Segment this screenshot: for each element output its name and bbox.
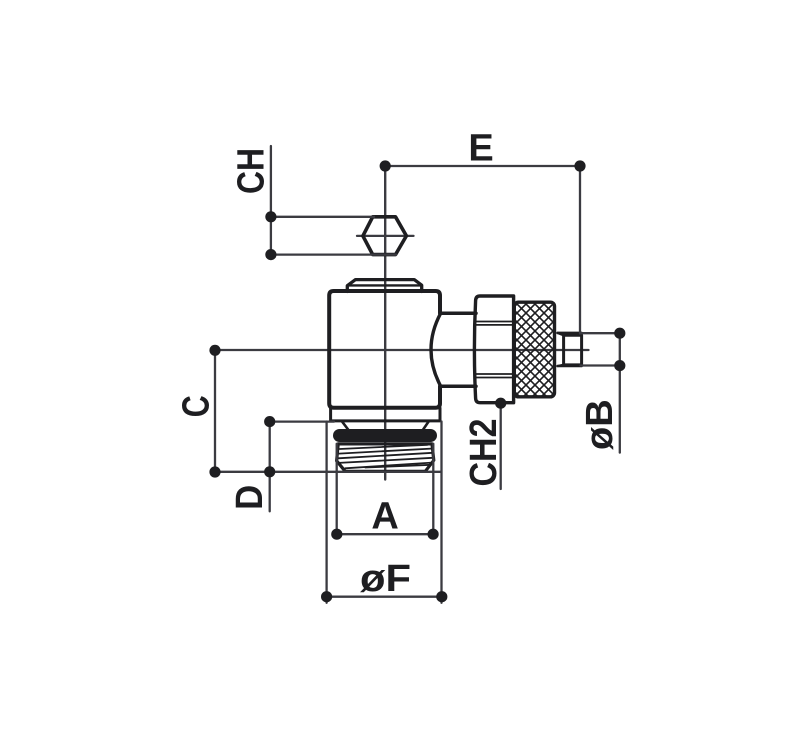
dimension øF left extension [325,422,327,603]
dot CH bottom [265,249,276,260]
dimension CH top line [271,216,374,218]
dimension A line [337,533,433,535]
tube stub bevel bottom [558,365,564,366]
svg-text:øF: øF [360,558,411,600]
threaded plug [337,444,434,471]
vertical centerline [384,166,386,480]
tube stub bevel top [558,333,564,335]
dimension øB bottom connector [581,364,619,366]
dot CH2 [495,398,506,409]
port neck top [440,311,476,315]
dot E left [380,160,391,171]
knurled ring [514,302,554,397]
body [329,291,440,408]
dot E right [574,160,585,171]
dimension øF right extension [440,422,442,603]
hex stud centerline [357,235,414,237]
tube stub outer top [558,332,582,335]
svg-text:D: D [229,485,271,510]
dot øF left [321,591,332,602]
dimension øB line [619,333,621,452]
dimension øB top connector [581,332,619,334]
top cap [347,280,421,292]
flange [331,408,440,421]
svg-text:øB: øB [579,399,621,450]
dot CH top [265,211,276,222]
hex stud head [363,217,407,255]
thread lines [338,445,433,469]
nut chamfer lines [475,322,513,378]
dot øF right [436,591,447,602]
dot C top [209,345,220,356]
dimension D line [269,422,271,512]
dimension CH2 extension line [500,403,502,489]
svg-text:CH2: CH2 [463,419,505,487]
tube stub box [564,335,582,365]
o-ring [333,429,437,442]
svg-text:C: C [175,395,217,417]
svg-text:A: A [371,495,398,537]
flange slant right [423,421,429,430]
top cap inner line [347,284,421,286]
tube stub outer bottom [558,365,582,368]
dot A right [428,529,439,540]
dot C bottom [209,466,220,477]
port neck bottom [440,384,476,388]
dot D bottom [264,466,275,477]
dimension E extension line [579,166,581,334]
flange slant left [342,421,349,430]
dimension E line [385,165,580,167]
dimension A left extension [336,444,338,534]
dimension CH bottom line [271,253,396,255]
dimension CH extension line [270,146,272,258]
knurl crosshatch [505,247,565,451]
concave arc transition [431,313,441,386]
shared bottom line C/D [215,471,441,473]
nut CH2 profile [474,296,513,403]
dot øB top [614,328,625,339]
dot A left [331,529,342,540]
dot øB bottom [614,360,625,371]
dot D top [264,416,275,427]
svg-text:E: E [468,128,493,170]
dimension A right extension [432,444,434,534]
dimension C line [214,349,216,473]
dimension D top line [270,420,334,422]
dimension øF line [327,596,442,598]
svg-text:CH: CH [230,148,272,194]
horizontal centerline [215,349,589,351]
